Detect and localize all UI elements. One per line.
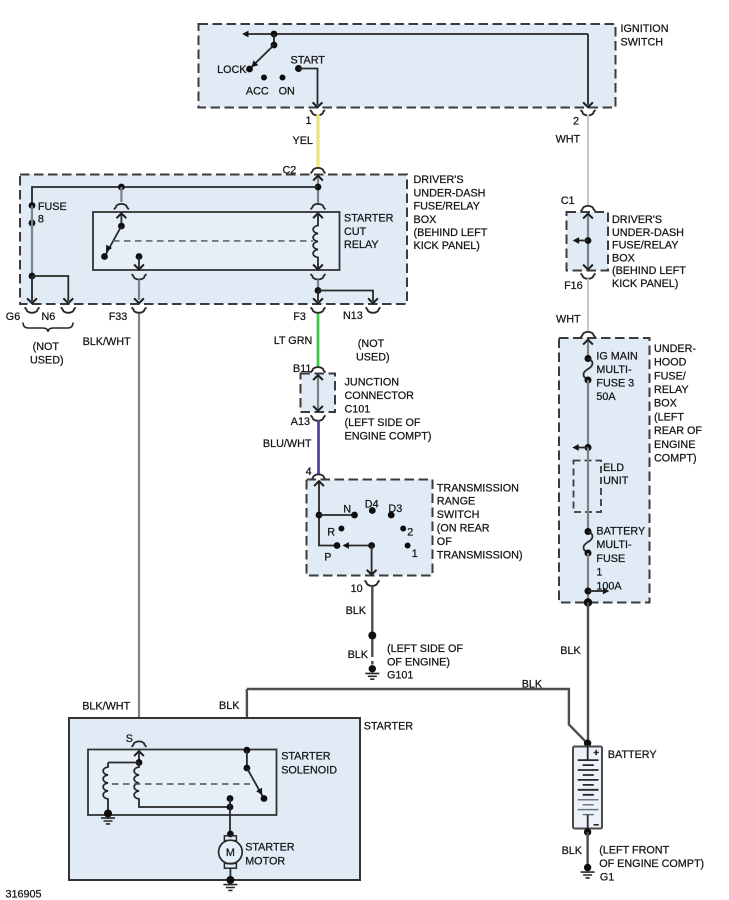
- connector F16: [564, 273, 595, 292]
- transmission range switch box: [307, 480, 433, 576]
- solenoid pull-in coil: [134, 763, 230, 808]
- relay coil: [311, 204, 326, 269]
- wire ignition top feed: [242, 31, 588, 38]
- connector pin 4: [306, 466, 326, 480]
- relay actuation dashed line: [113, 240, 313, 242]
- fuse IG MAIN MULTI-FUSE 3 50A: [584, 350, 638, 403]
- wire under-hood entry arrow: [583, 340, 593, 358]
- svg-text:MULTI-: MULTI-: [596, 364, 632, 376]
- svg-text:BLK/WHT: BLK/WHT: [83, 336, 131, 348]
- svg-text:BOX: BOX: [414, 214, 437, 226]
- svg-text:COMPT): COMPT): [654, 453, 697, 465]
- label IGNITION SWITCH: [621, 23, 669, 49]
- svg-text:FUSE: FUSE: [38, 201, 67, 213]
- svg-text:BOX: BOX: [654, 398, 677, 410]
- svg-text:STARTER: STARTER: [245, 842, 295, 854]
- wire through ELD: [587, 448, 589, 532]
- label driver's under-dash box: [414, 174, 488, 252]
- wire to pin 2: [583, 34, 593, 107]
- connector F3: [293, 307, 325, 323]
- wire relay switch feed: [114, 184, 129, 230]
- svg-text:A13: A13: [291, 416, 310, 428]
- wire START to pin 1: [299, 69, 323, 108]
- svg-text:F3: F3: [293, 311, 306, 323]
- svg-text:G6: G6: [6, 311, 20, 323]
- contact START: [291, 55, 326, 73]
- connector C2: [282, 165, 325, 177]
- starter motor: [219, 831, 243, 877]
- svg-text:FUSE/: FUSE/: [654, 370, 686, 382]
- svg-text:KICK PANEL): KICK PANEL): [612, 278, 678, 290]
- svg-text:P: P: [324, 552, 331, 564]
- wire C1 internal: [573, 214, 593, 270]
- svg-text:SWITCH: SWITCH: [621, 37, 664, 49]
- connector A13: [291, 415, 326, 428]
- brace not-used G6 N6: [23, 323, 73, 367]
- contact ON: [279, 75, 295, 98]
- starter box: [69, 718, 360, 880]
- svg-text:JUNCTION: JUNCTION: [345, 377, 400, 389]
- svg-text:MULTI-: MULTI-: [596, 539, 632, 551]
- connector pin 10: [351, 580, 380, 595]
- svg-text:N: N: [343, 504, 351, 516]
- svg-text:SWITCH: SWITCH: [437, 509, 480, 521]
- svg-text:USED): USED): [356, 352, 390, 364]
- wire LT GRN: [274, 314, 318, 367]
- svg-text:M: M: [226, 847, 235, 859]
- svg-text:G1: G1: [600, 872, 614, 884]
- ground starter motor: [223, 876, 237, 890]
- connector F33: [83, 307, 147, 348]
- contact 1: [405, 543, 418, 561]
- svg-text:FUSE 3: FUSE 3: [596, 377, 634, 389]
- svg-text:(LEFT SIDE OF: (LEFT SIDE OF: [345, 417, 421, 429]
- label STARTER SOLENOID: [281, 751, 337, 777]
- svg-text:UNDER-: UNDER-: [654, 343, 696, 355]
- svg-text:2: 2: [407, 527, 413, 539]
- svg-text:316905: 316905: [6, 889, 42, 900]
- svg-text:G101: G101: [387, 670, 413, 682]
- wire junction connector internal: [313, 375, 323, 411]
- svg-text:BLK: BLK: [346, 605, 367, 617]
- fuse BATTERY MULTI-FUSE 1 100A: [584, 526, 646, 593]
- svg-text:SOLENOID: SOLENOID: [281, 765, 337, 777]
- connector N13: [343, 307, 390, 363]
- solenoid moving contact: [247, 768, 268, 802]
- svg-text:R: R: [327, 527, 335, 539]
- svg-text:C1: C1: [561, 195, 575, 207]
- contact R: [327, 526, 344, 539]
- svg-text:(LEFT FRONT: (LEFT FRONT: [599, 845, 669, 857]
- svg-text:D4: D4: [365, 498, 379, 510]
- svg-text:FUSE: FUSE: [596, 553, 625, 565]
- wire fuse feed line: [32, 187, 318, 205]
- svg-text:2: 2: [573, 116, 579, 128]
- wire solenoid input: [108, 751, 144, 766]
- svg-text:F16: F16: [564, 280, 583, 292]
- contact N: [343, 504, 358, 519]
- svg-text:ENGINE COMPT): ENGINE COMPT): [345, 431, 432, 443]
- svg-text:(BEHIND LEFT: (BEHIND LEFT: [414, 227, 488, 239]
- ignition switch box: [199, 24, 616, 108]
- wire WHT F16 to under-hood: [556, 279, 588, 332]
- contact D4: [365, 498, 379, 514]
- svg-text:HOOD: HOOD: [654, 357, 687, 369]
- svg-text:REAR OF: REAR OF: [654, 425, 702, 437]
- svg-text:(LEFT SIDE OF: (LEFT SIDE OF: [387, 643, 463, 655]
- svg-text:BLK: BLK: [522, 679, 543, 691]
- svg-text:OF: OF: [437, 536, 452, 548]
- ground solenoid coil: [101, 810, 115, 824]
- svg-text:TRANSMISSION: TRANSMISSION: [437, 482, 519, 494]
- connector B11: [293, 363, 325, 375]
- wire BLK bottom run to battery: [247, 679, 586, 742]
- svg-text:CONNECTOR: CONNECTOR: [345, 390, 415, 402]
- svg-text:1: 1: [305, 115, 311, 127]
- svg-text:F33: F33: [109, 311, 128, 323]
- svg-text:N6: N6: [42, 311, 56, 323]
- svg-text:IG MAIN: IG MAIN: [596, 350, 637, 362]
- wire trans switch input: [314, 481, 354, 545]
- svg-text:(LEFT: (LEFT: [654, 411, 684, 423]
- wire relay out to F33: [132, 274, 147, 303]
- label junction connector: [345, 377, 432, 443]
- fuse 8: [29, 201, 67, 276]
- svg-text:UNIT: UNIT: [603, 475, 629, 487]
- wire BLK/WHT F33 to starter: [82, 314, 139, 741]
- label STARTER MOTOR: [245, 842, 295, 868]
- driver's under-dash fuse/relay box: [20, 175, 407, 305]
- svg-text:YEL: YEL: [293, 135, 313, 147]
- wire trans output to pin 10: [367, 546, 377, 575]
- svg-text:BLU/WHT: BLU/WHT: [263, 438, 312, 450]
- svg-text:ELD: ELD: [603, 462, 624, 474]
- svg-text:(BEHIND LEFT: (BEHIND LEFT: [612, 265, 686, 277]
- wire BLK battery to G1: [562, 832, 588, 866]
- switch wiper to LOCK: [246, 45, 274, 72]
- contact D3: [388, 503, 402, 519]
- svg-text:UNDER-DASH: UNDER-DASH: [612, 227, 684, 239]
- relay switch wiper: [101, 226, 121, 260]
- svg-text:1: 1: [412, 548, 418, 560]
- wire YEL: [293, 115, 319, 170]
- pin 2 connector: [573, 110, 595, 128]
- svg-text:8: 8: [38, 214, 44, 226]
- svg-text:RANGE: RANGE: [437, 496, 475, 508]
- svg-text:N13: N13: [343, 310, 363, 322]
- svg-text:WHT: WHT: [556, 134, 581, 146]
- svg-text:BLK: BLK: [562, 845, 583, 857]
- solenoid actuation dashed line: [112, 783, 250, 785]
- svg-text:OF ENGINE COMPT): OF ENGINE COMPT): [599, 858, 704, 870]
- driver's under-dash fuse/relay box (right): [567, 212, 609, 271]
- svg-text:50A: 50A: [596, 391, 616, 403]
- contact P: [324, 542, 340, 563]
- wire WHT pin2 to C1: [556, 115, 588, 206]
- svg-text:S: S: [126, 733, 133, 745]
- wire BLU/WHT: [263, 421, 319, 475]
- wire to ELD tap: [572, 380, 591, 451]
- contact 2: [400, 526, 413, 539]
- svg-text:IGNITION: IGNITION: [621, 23, 669, 35]
- solenoid contact input: [244, 747, 251, 772]
- svg-text:(NOT: (NOT: [358, 338, 385, 350]
- svg-text:BLK: BLK: [219, 700, 240, 712]
- svg-text:UNDER-DASH: UNDER-DASH: [414, 187, 486, 199]
- trans switch wiper: [343, 542, 376, 549]
- connector G6: [6, 307, 40, 323]
- svg-text:BOX: BOX: [612, 252, 635, 264]
- svg-text:OF ENGINE): OF ENGINE): [387, 657, 450, 669]
- wire BLK to G101: [346, 586, 377, 665]
- starter solenoid box: [88, 750, 277, 816]
- svg-text:MOTOR: MOTOR: [245, 856, 285, 868]
- node switch common junction: [271, 31, 278, 49]
- svg-text:DRIVER'S: DRIVER'S: [414, 174, 464, 186]
- svg-text:STARTER: STARTER: [281, 751, 331, 763]
- wire to box exit: [584, 553, 610, 607]
- svg-text:LOCK: LOCK: [217, 64, 247, 76]
- svg-text:START: START: [291, 55, 326, 67]
- wire C2 entry arrow: [313, 176, 323, 205]
- label transmission range switch: [437, 482, 523, 561]
- svg-text:USED): USED): [30, 355, 64, 367]
- connector S: [126, 733, 147, 747]
- svg-text:ACC: ACC: [246, 86, 269, 98]
- solenoid output node: [227, 795, 234, 833]
- svg-text:BLK: BLK: [560, 645, 581, 657]
- svg-text:10: 10: [351, 583, 363, 595]
- svg-text:RELAY: RELAY: [344, 239, 379, 251]
- svg-text:TRANSMISSION): TRANSMISSION): [437, 549, 523, 561]
- label driver's box right: [612, 214, 686, 290]
- connector C1: [561, 195, 596, 211]
- svg-text:BATTERY: BATTERY: [608, 749, 657, 761]
- connector N6: [42, 307, 76, 323]
- svg-text:ENGINE: ENGINE: [654, 439, 695, 451]
- battery: [573, 740, 602, 836]
- svg-text:ON: ON: [279, 86, 295, 98]
- svg-text:WHT: WHT: [556, 314, 581, 326]
- svg-text:(NOT: (NOT: [33, 341, 60, 353]
- svg-text:(ON REAR: (ON REAR: [437, 523, 490, 535]
- wire BLK under-hood to battery: [560, 603, 588, 742]
- svg-text:D3: D3: [388, 503, 402, 515]
- pin 1 connector: [305, 110, 324, 127]
- connector under-hood entry: [581, 332, 596, 338]
- svg-text:CUT: CUT: [344, 226, 367, 238]
- svg-text:4: 4: [306, 466, 312, 478]
- svg-text:BATTERY: BATTERY: [596, 526, 645, 538]
- svg-text:KICK PANEL): KICK PANEL): [414, 240, 480, 252]
- svg-text:FUSE/RELAY: FUSE/RELAY: [612, 240, 678, 252]
- svg-text:BLK: BLK: [348, 649, 369, 661]
- svg-text:BLK/WHT: BLK/WHT: [82, 701, 130, 713]
- svg-text:DRIVER'S: DRIVER'S: [612, 214, 662, 226]
- junction connector C101 box: [301, 374, 336, 413]
- svg-text:1: 1: [596, 567, 602, 579]
- svg-text:C101: C101: [345, 404, 371, 416]
- wire BLK starter feed: [219, 689, 247, 750]
- svg-text:RELAY: RELAY: [654, 384, 689, 396]
- label under-hood box: [654, 343, 702, 465]
- wire relay coil out to F3 and N13 branch: [311, 274, 378, 303]
- relay switch fixed contact: [134, 253, 144, 269]
- svg-text:STARTER: STARTER: [364, 720, 414, 732]
- svg-text:LT GRN: LT GRN: [274, 335, 313, 347]
- contact ACC: [246, 75, 269, 98]
- ELD unit box: [574, 461, 629, 513]
- svg-text:STARTER: STARTER: [344, 213, 394, 225]
- svg-text:FUSE/RELAY: FUSE/RELAY: [414, 201, 480, 213]
- ground G101: [365, 643, 463, 682]
- under-hood fuse/relay box: [559, 338, 650, 603]
- ground G1: [581, 845, 705, 884]
- starter cut relay box: [93, 212, 340, 270]
- wire G6/N6 branch: [27, 273, 73, 304]
- label STARTER CUT RELAY: [344, 213, 394, 252]
- solenoid hold-in coil: [103, 763, 108, 814]
